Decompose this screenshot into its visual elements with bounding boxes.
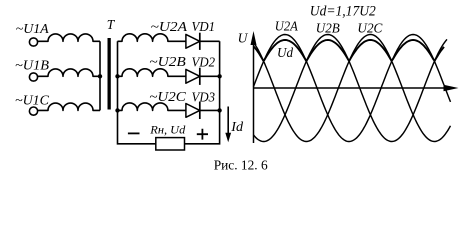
svg-text:U2C: U2C [357, 20, 383, 35]
plus sign [197, 129, 208, 140]
primary bus junction dot (phase B) [98, 74, 102, 78]
primary winding L1A [38, 34, 100, 41]
secondary winding L2C [118, 103, 186, 111]
Ud envelope curve [254, 40, 445, 61]
svg-text:Рис. 12. 6: Рис. 12. 6 [214, 159, 268, 174]
secondary bus wire (star point down to load) [118, 41, 156, 144]
svg-text:Id: Id [230, 119, 243, 134]
secondary winding L2B [118, 69, 186, 77]
Id current arrow [227, 107, 229, 137]
svg-text:~U1A: ~U1A [16, 21, 50, 36]
load resistor Rn box [156, 138, 185, 150]
svg-text:VD3: VD3 [192, 89, 216, 104]
svg-text:Ud=1,17U2: Ud=1,17U2 [310, 4, 376, 20]
terminal circle phase A [29, 38, 37, 46]
primary winding L1C [38, 103, 100, 110]
primary winding L1B [38, 69, 100, 76]
svg-text:VD2: VD2 [192, 54, 216, 69]
wire diode VD3 cathode to right bus [200, 109, 220, 111]
svg-text:U2A: U2A [275, 19, 299, 34]
waveform vertical axis U [253, 44, 255, 143]
svg-text:~U1C: ~U1C [15, 92, 50, 107]
diode VD2 [186, 69, 200, 83]
wire diode VD2 cathode to right bus [200, 75, 220, 77]
right bus junction dot (phase B) [217, 74, 221, 78]
waveform horizontal axis (time) [254, 87, 447, 89]
svg-text:VD1: VD1 [192, 19, 216, 34]
svg-text:Ud: Ud [277, 45, 293, 60]
right cathode bus wire [185, 41, 220, 144]
wire diode VD1 cathode to right bus [200, 40, 220, 42]
terminal circle phase B [29, 73, 37, 81]
diode VD1 [186, 34, 200, 48]
svg-text:~U2A: ~U2A [151, 19, 188, 34]
terminal circle phase C [29, 107, 37, 115]
secondary bus junction dot (phase B) [115, 74, 119, 78]
transformer core bar [108, 38, 111, 110]
right bus junction dot (phase C) [217, 108, 221, 112]
svg-text:~U1B: ~U1B [15, 57, 49, 72]
svg-text:Rн, Ud: Rн, Ud [149, 122, 186, 136]
secondary bus junction dot (phase C) [115, 108, 119, 112]
sinusoid U2B curve [254, 35, 448, 142]
minus sign [128, 132, 140, 134]
secondary winding L2A [118, 34, 186, 42]
primary star bus wire [99, 41, 101, 110]
svg-text:~U2C: ~U2C [149, 89, 187, 104]
sinusoid U2A curve [254, 35, 451, 142]
svg-text:U: U [238, 31, 249, 46]
svg-text:U2B: U2B [316, 20, 340, 35]
diode VD3 [186, 104, 200, 118]
svg-text:~U2B: ~U2B [149, 54, 186, 69]
sinusoid U2C curve [254, 35, 451, 142]
